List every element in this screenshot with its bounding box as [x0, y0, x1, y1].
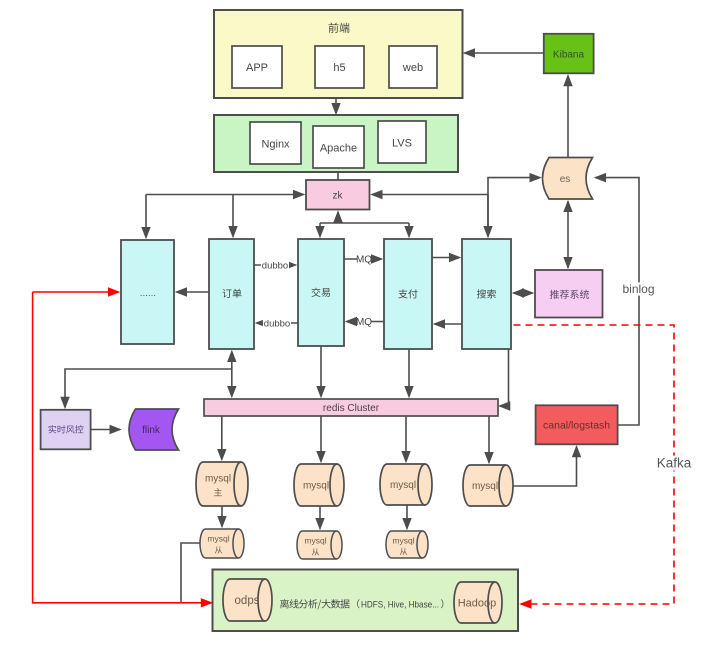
svg-text:mysql: mysql [205, 474, 231, 485]
box dots ...... [121, 240, 174, 344]
svg-text:Kibana: Kibana [553, 50, 585, 61]
wire redis to mysql 4 [488, 416, 490, 463]
label dubbo top [261, 260, 289, 271]
LVS box [378, 121, 426, 163]
svg-text:mysql: mysql [390, 480, 416, 491]
box 实时风控 [41, 410, 91, 450]
label Kafka [653, 456, 694, 471]
svg-text:LVS: LVS [392, 137, 412, 149]
label 订单 [223, 289, 242, 298]
wire 交易 to redis [320, 346, 322, 397]
h5 box [315, 46, 364, 88]
box 交易 [298, 239, 344, 346]
mysql 从 cylinder 1 [200, 529, 244, 558]
svg-text:h5: h5 [333, 62, 345, 74]
web box [389, 46, 437, 88]
wire 搜索 to 推荐系统 double arrow [514, 292, 533, 294]
wire redis to mysql 2 [320, 416, 322, 462]
svg-text:APP: APP [246, 62, 268, 74]
svg-text:binlog: binlog [622, 282, 654, 296]
svg-text:es: es [560, 174, 571, 185]
mysql 从 cylinder 2 [297, 531, 342, 559]
frontend container box 前端 [214, 10, 463, 98]
svg-text:Nginx: Nginx [261, 138, 290, 150]
svg-text:mysql: mysql [303, 481, 329, 492]
wire arrow into 搜索 top [487, 195, 489, 237]
wire dubbo top 订单 to 交易 [254, 264, 296, 266]
svg-text:Apache: Apache [320, 142, 357, 154]
mysql 从 cylinder 3 [386, 531, 428, 558]
APP box [232, 46, 282, 88]
wire es to 推荐系统 double arrow [567, 202, 569, 268]
mysql cylinder 4 [463, 465, 513, 506]
Apache box [313, 126, 364, 168]
wire left branch into zk [146, 194, 304, 196]
svg-text:mysql: mysql [472, 481, 498, 492]
label 从 3 [400, 548, 407, 555]
canal/logstash box [536, 405, 618, 444]
wire 搜索 to 支付 bottom [435, 323, 463, 325]
svg-text:web: web [402, 62, 423, 74]
wire right branch into zk [372, 194, 488, 196]
Hadoop cylinder [454, 582, 502, 623]
wire dubbo bottom 交易 to 订单 [257, 322, 299, 324]
wire Kibana to frontend [465, 52, 544, 54]
wire mysql3 to 从3 [406, 505, 408, 529]
label MQ top [358, 254, 371, 265]
wire 订单 redis double arrow [231, 352, 233, 397]
label 从 2 [312, 548, 319, 555]
wire MQ bottom 支付 to 交易 [347, 321, 385, 323]
wire canal to es binlog path [596, 178, 640, 425]
wire 支付 to 搜索 top [432, 257, 460, 259]
wire MQ top 交易 to 支付 [344, 258, 382, 260]
wire connector down into 支付 [408, 223, 410, 237]
wire mysql4 to canal/logstash [513, 447, 577, 486]
svg-text:dubbo: dubbo [262, 260, 288, 271]
box 搜索 [462, 239, 511, 349]
svg-text:MQ: MQ [356, 317, 372, 328]
wire down into box 订单 [232, 195, 234, 237]
svg-text:Kafka: Kafka [657, 456, 692, 471]
offline big-data container box [213, 570, 519, 632]
Kibana box [544, 34, 594, 74]
label fullwidth open paren [357, 599, 359, 608]
svg-text:mysql: mysql [304, 536, 326, 546]
es stored-data shape [543, 158, 593, 200]
label 前端 [329, 23, 350, 33]
label 离线分析/大数据 text (CJK part) [280, 599, 349, 609]
label 交易 [311, 288, 330, 297]
flink stored-data shape [129, 409, 179, 450]
svg-text:canal/logstash: canal/logstash [543, 420, 610, 432]
svg-text:mysql: mysql [207, 534, 229, 544]
label MQ bottom [358, 316, 371, 327]
red wire into ...... [33, 291, 119, 293]
wire mysql从1 down to bottom-left [181, 543, 200, 602]
wire redis to mysql 主 [221, 416, 223, 460]
zk box [306, 180, 370, 210]
wire mysql 主 to 从1 [221, 506, 223, 527]
wire search up to es elbow [488, 178, 540, 237]
wire es to Kibana [567, 76, 569, 157]
svg-text:Hadoop: Hadoop [458, 597, 497, 609]
label fullwidth close paren [441, 599, 443, 608]
label 实时风控 [48, 425, 83, 433]
svg-text:redis Cluster: redis Cluster [323, 403, 380, 414]
red wire left vertical to big-data box [33, 292, 212, 603]
red dashed Kafka path [514, 325, 675, 604]
wire down into box ...... [145, 195, 147, 238]
box 订单 [209, 239, 254, 349]
svg-text:flink: flink [142, 425, 161, 436]
svg-text:dubbo: dubbo [264, 318, 290, 329]
wire 订单 to ...... [177, 291, 210, 293]
wire 支付 to redis [408, 349, 410, 397]
wire load-balancer to zk (plain) [337, 172, 339, 180]
wire frontend to load-balancer [335, 98, 337, 113]
wire connector up into zk [337, 212, 339, 223]
wire 实时风控 to flink [91, 429, 120, 431]
label 支付 [398, 289, 417, 298]
label 从 1 [215, 546, 222, 553]
mysql cylinder 3 [380, 464, 432, 505]
svg-text:odps: odps [235, 595, 260, 607]
label 推荐系统 [550, 290, 589, 299]
label dubbo bottom [263, 318, 291, 329]
svg-text:mysql: mysql [392, 536, 414, 546]
wire zk bottom connector horizontal [320, 222, 409, 224]
label 主 [214, 488, 222, 496]
wire redis to mysql 3 [405, 416, 407, 462]
redis Cluster bar [204, 399, 498, 416]
box 支付 [384, 239, 432, 349]
Nginx box [250, 122, 301, 164]
svg-text:MQ: MQ [356, 255, 372, 266]
label binlog [617, 282, 661, 295]
odps cylinder [223, 579, 272, 621]
svg-text:......: ...... [140, 288, 156, 298]
box 推荐系统 [535, 270, 603, 318]
wire branch to 实时风控 [65, 369, 232, 407]
wire mysql2 to 从2 [319, 506, 321, 529]
wire connector down into 交易 [319, 223, 321, 237]
wire 搜索 to redis right end [500, 349, 509, 406]
svg-text:zk: zk [333, 191, 344, 202]
load-balancer container box [214, 115, 458, 172]
mysql cylinder 2 [294, 464, 344, 506]
label 搜索 [477, 289, 496, 298]
mysql 主 cylinder [196, 462, 248, 506]
svg-text:HDFS, Hive, Hbase...: HDFS, Hive, Hbase... [361, 599, 439, 610]
